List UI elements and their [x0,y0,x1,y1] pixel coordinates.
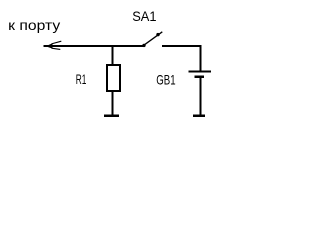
resistor bottom terminal bar [104,115,119,118]
arrow head (points left, to port) [52,41,62,49]
wire resistor top (vertical) [112,45,114,64]
svg-text:к порту: к порту [8,17,60,33]
battery GB1 negative plate (short) [194,76,204,79]
switch SA1 left contact dot [142,44,145,47]
resistor R1 body [107,65,120,91]
switch SA1 movable arm [144,32,163,46]
wire battery top (vertical) [199,45,201,71]
svg-text:R1: R1 [76,71,87,87]
switch SA1 arm contact dot [156,33,159,36]
svg-text:SA1: SA1 [132,8,156,24]
battery bottom terminal bar [193,115,205,118]
wire to port (horizontal, arrow shaft to switch) [44,45,144,47]
wire battery bottom (vertical) [199,78,201,115]
wire resistor bottom (vertical) [112,91,114,115]
svg-text:GB1: GB1 [156,72,175,88]
battery GB1 positive plate (long) [188,70,211,72]
wire switch to battery (horizontal) [162,45,201,47]
